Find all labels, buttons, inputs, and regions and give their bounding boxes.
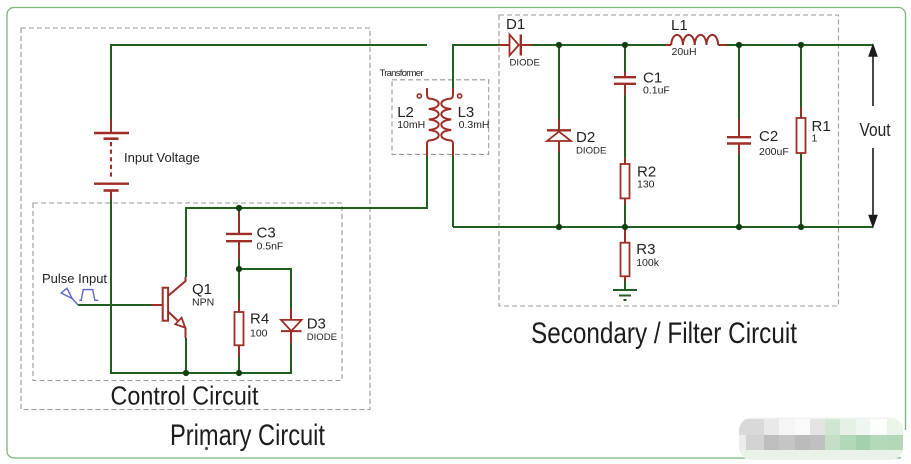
svg-text:R3: R3 xyxy=(636,241,655,258)
svg-text:Secondary / Filter Circuit: Secondary / Filter Circuit xyxy=(531,317,798,350)
svg-text:C3: C3 xyxy=(257,225,276,242)
svg-text:Pulse Input: Pulse Input xyxy=(42,271,107,286)
svg-text:10mH: 10mH xyxy=(397,119,425,131)
svg-text:D3: D3 xyxy=(307,315,326,332)
svg-text:20uH: 20uH xyxy=(672,46,697,58)
svg-text:0.1uF: 0.1uF xyxy=(643,85,670,97)
svg-text:D2: D2 xyxy=(576,129,595,146)
svg-text:0.5nF: 0.5nF xyxy=(257,240,284,252)
svg-text:Input Voltage: Input Voltage xyxy=(124,150,200,165)
svg-text:200uF: 200uF xyxy=(759,146,789,158)
svg-text:Control Circuit: Control Circuit xyxy=(111,381,260,411)
svg-text:NPN: NPN xyxy=(192,297,214,309)
svg-text:130: 130 xyxy=(637,179,655,191)
svg-text:DIODE: DIODE xyxy=(576,146,606,157)
svg-text:R4: R4 xyxy=(250,311,269,328)
svg-text:Vout: Vout xyxy=(860,120,891,140)
svg-text:Primary Circuit: Primary Circuit xyxy=(170,419,326,452)
svg-text:Transformer: Transformer xyxy=(380,68,424,79)
svg-text:100: 100 xyxy=(250,328,268,340)
svg-text:0.3mH: 0.3mH xyxy=(459,119,490,131)
svg-text:DIODE: DIODE xyxy=(510,58,540,69)
svg-text:C2: C2 xyxy=(759,128,778,145)
svg-text:L1: L1 xyxy=(671,17,688,34)
svg-text:Q1: Q1 xyxy=(192,281,212,298)
svg-text:DIODE: DIODE xyxy=(307,332,337,343)
svg-text:1: 1 xyxy=(812,133,818,145)
svg-text:D1: D1 xyxy=(506,16,525,33)
svg-text:100k: 100k xyxy=(636,257,660,269)
